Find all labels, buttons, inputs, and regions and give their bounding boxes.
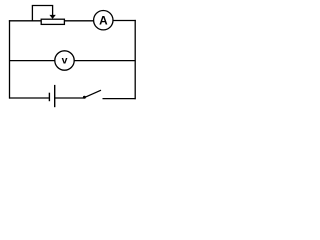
wire battery to switch bbox=[55, 97, 84, 99]
battery cell short plate (negative) bbox=[48, 93, 50, 102]
switch S blade (open) bbox=[85, 90, 101, 97]
wire left rail bbox=[9, 20, 11, 98]
rheostat slider arrowhead bbox=[49, 15, 55, 19]
svg-text:v: v bbox=[62, 55, 68, 67]
wire switch to right rail bbox=[103, 98, 136, 100]
switch S contact node bbox=[83, 96, 86, 99]
resistor R (rheostat body) bbox=[41, 19, 64, 24]
ammeter A bbox=[94, 11, 113, 30]
wire top-left segment bbox=[9, 20, 42, 22]
wire voltmeter to right rail bbox=[74, 60, 136, 62]
voltmeter V bbox=[55, 51, 74, 70]
wire rheostat to ammeter bbox=[64, 20, 93, 22]
wire middle-left segment bbox=[9, 60, 55, 62]
wire bottom-left segment bbox=[9, 97, 49, 99]
wire ammeter to right rail bbox=[113, 20, 136, 22]
wire right rail bbox=[134, 20, 136, 99]
svg-text:A: A bbox=[99, 14, 108, 28]
rheostat slider arm wire bbox=[32, 6, 52, 21]
battery cell long plate (positive) bbox=[54, 85, 56, 107]
